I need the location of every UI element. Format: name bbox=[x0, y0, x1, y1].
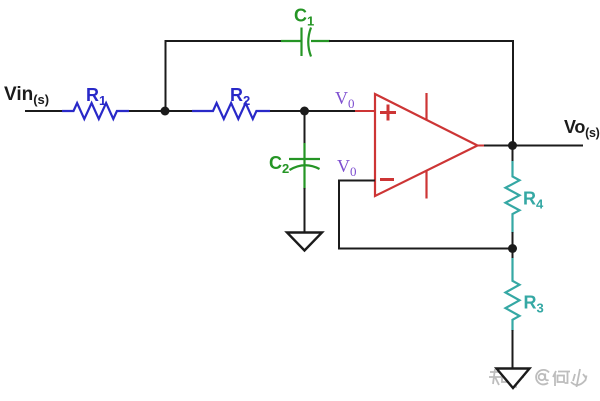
capacitor C2 bbox=[289, 143, 320, 189]
wire R3 to ground bbox=[512, 330, 514, 368]
wire R1 to node A bbox=[129, 110, 166, 112]
wire node C to op-amp (black part) bbox=[305, 110, 357, 112]
wire right vertical down to output bbox=[512, 40, 514, 146]
wire feedback: minus input to left bbox=[338, 180, 375, 182]
wire node A up bbox=[165, 41, 167, 111]
watermark char Zhi bbox=[489, 369, 501, 385]
resistor R2 bbox=[192, 103, 270, 119]
wire red segment into + input bbox=[355, 110, 375, 112]
op-amp minus sign bbox=[380, 178, 394, 181]
node D junction bbox=[508, 244, 517, 253]
wire node C down (black upper part) bbox=[304, 111, 306, 144]
op-amp power pin top bbox=[425, 93, 427, 120]
watermark @ sign bbox=[536, 370, 549, 385]
ground (bottom, under R3) bbox=[497, 369, 530, 389]
wire output red segment bbox=[478, 145, 486, 147]
wire top right segment bbox=[329, 40, 514, 42]
node A junction bbox=[161, 107, 170, 116]
watermark char Bi bbox=[571, 369, 587, 387]
capacitor C1 bbox=[281, 28, 330, 57]
wire node B down to R4 bbox=[512, 146, 514, 163]
op-amp plus sign bbox=[380, 105, 396, 121]
op-amp power pin bottom bbox=[425, 171, 427, 199]
watermark char He bbox=[553, 371, 556, 386]
wire feedback vertical bbox=[338, 180, 340, 250]
wire feedback bottom horizontal to node D bbox=[338, 248, 513, 250]
watermark 知乎 @何必 (approximated strokes) bbox=[489, 369, 524, 387]
wire node D down bbox=[512, 249, 514, 262]
wire node A to R2 bbox=[165, 110, 193, 112]
wire C2 down to ground bbox=[304, 188, 306, 232]
wire R2 to node C bbox=[270, 110, 306, 112]
resistor R4 bbox=[506, 161, 520, 233]
wire R4 to node D bbox=[512, 232, 514, 249]
resistor R3 bbox=[506, 258, 520, 331]
wire output to node B and right bbox=[484, 145, 583, 147]
ground (under C2) bbox=[287, 233, 322, 251]
wire input to R1 bbox=[25, 110, 63, 112]
node C junction bbox=[300, 107, 309, 116]
op-amp U1 triangle bbox=[375, 94, 478, 196]
watermark char Hu bbox=[508, 369, 524, 387]
wire top left segment bbox=[165, 40, 283, 42]
node B junction bbox=[508, 141, 517, 150]
resistor R1 bbox=[62, 103, 129, 119]
